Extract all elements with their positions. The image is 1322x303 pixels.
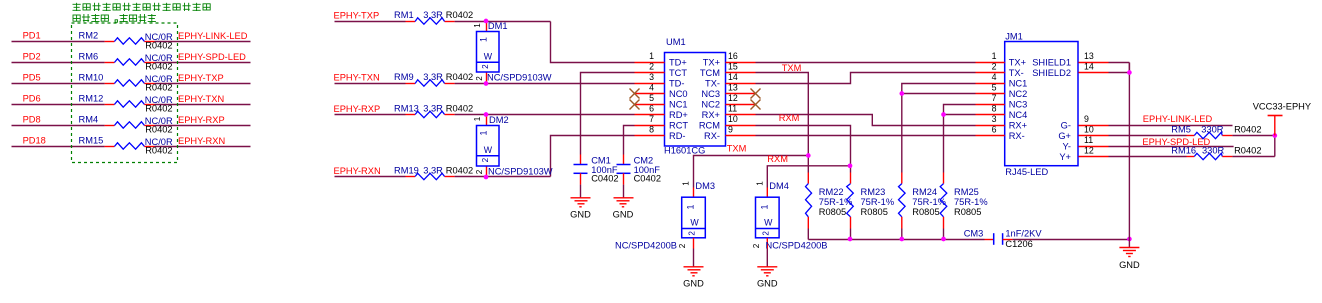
svg-text:CM3: CM3: [964, 229, 984, 239]
svg-text:JM1: JM1: [1005, 31, 1023, 41]
svg-text:UM1: UM1: [666, 37, 686, 47]
svg-text:R0402: R0402: [446, 104, 473, 114]
svg-text:2: 2: [752, 243, 761, 248]
svg-text:Y+: Y+: [1059, 152, 1071, 162]
svg-text:5: 5: [649, 93, 654, 103]
svg-text:R0402: R0402: [1234, 125, 1261, 135]
svg-text:1: 1: [686, 204, 696, 209]
svg-text:NC4: NC4: [1009, 110, 1028, 120]
svg-text:RM23: RM23: [861, 187, 886, 197]
svg-text:GND: GND: [570, 209, 591, 219]
svg-text:TD+: TD+: [669, 57, 687, 67]
svg-text:RM5: RM5: [1171, 125, 1191, 135]
svg-text:RXM: RXM: [767, 154, 788, 164]
svg-text:RM9: RM9: [394, 72, 414, 82]
svg-text:R0805: R0805: [861, 207, 888, 217]
svg-text:CM2: CM2: [634, 155, 654, 165]
svg-text:4: 4: [649, 82, 654, 92]
svg-text:8: 8: [649, 124, 654, 134]
svg-text:RM24: RM24: [912, 187, 937, 197]
svg-text:R0402: R0402: [145, 125, 172, 135]
svg-text:R0402: R0402: [446, 10, 473, 20]
svg-text:R0805: R0805: [819, 207, 846, 217]
svg-text:TD-: TD-: [669, 78, 685, 88]
svg-text:DM1: DM1: [488, 21, 508, 31]
svg-text:12: 12: [1084, 145, 1094, 155]
svg-text:RM4: RM4: [79, 114, 99, 124]
svg-text:6: 6: [992, 124, 997, 134]
svg-text:NC/SPD4200B: NC/SPD4200B: [615, 240, 677, 250]
svg-text:14: 14: [728, 72, 738, 82]
svg-text:R0402: R0402: [145, 104, 172, 114]
svg-text:EPHY-RXN: EPHY-RXN: [178, 136, 225, 146]
svg-text:DM2: DM2: [489, 115, 509, 125]
svg-text:1: 1: [682, 181, 691, 186]
svg-text:2: 2: [481, 64, 490, 69]
svg-text:11: 11: [1084, 135, 1093, 145]
svg-text:RM19: RM19: [394, 166, 419, 176]
svg-text:Y-: Y-: [1063, 141, 1071, 151]
svg-text:TX+: TX+: [1009, 57, 1026, 67]
svg-text:R0402: R0402: [1234, 146, 1261, 156]
svg-text:15: 15: [728, 61, 738, 71]
svg-text:75R-1%: 75R-1%: [954, 197, 988, 207]
svg-text:1: 1: [479, 37, 489, 42]
svg-text:3.3R: 3.3R: [423, 166, 443, 176]
svg-text:5: 5: [992, 82, 997, 92]
svg-text:EPHY-RXP: EPHY-RXP: [178, 115, 225, 125]
svg-text:RM2: RM2: [79, 30, 99, 40]
svg-text:C0402: C0402: [634, 174, 661, 184]
svg-text:NC0: NC0: [669, 89, 688, 99]
svg-text:R0402: R0402: [145, 83, 172, 93]
svg-text:10: 10: [728, 114, 738, 124]
svg-text:1: 1: [992, 51, 997, 61]
svg-text:12: 12: [728, 93, 738, 103]
svg-text:PD18: PD18: [23, 135, 46, 145]
svg-text:2: 2: [475, 169, 484, 174]
svg-text:PD8: PD8: [23, 114, 41, 124]
svg-text:6: 6: [649, 103, 654, 113]
svg-text:1: 1: [473, 116, 482, 121]
svg-text:13: 13: [728, 82, 738, 92]
svg-text:75R-1%: 75R-1%: [861, 197, 895, 207]
svg-text:1: 1: [759, 204, 769, 209]
svg-text:SHIELD2: SHIELD2: [1032, 68, 1071, 78]
svg-text:RJ45-LED: RJ45-LED: [1005, 167, 1048, 177]
svg-text:CM1: CM1: [591, 155, 611, 165]
svg-text:PD2: PD2: [23, 51, 41, 61]
svg-text:SHIELD1: SHIELD1: [1032, 57, 1071, 67]
svg-text:EPHY-LINK-LED: EPHY-LINK-LED: [1143, 114, 1213, 124]
svg-text:GND: GND: [683, 278, 704, 288]
svg-text:R0805: R0805: [954, 207, 981, 217]
svg-text:1: 1: [755, 181, 764, 186]
svg-text:NC/SPD9103W: NC/SPD9103W: [488, 166, 553, 176]
svg-text:7: 7: [992, 93, 997, 103]
svg-text:GND: GND: [757, 278, 778, 288]
svg-text:TX+: TX+: [703, 57, 720, 67]
svg-text:NC/SPD9103W: NC/SPD9103W: [487, 73, 552, 83]
svg-text:RX+: RX+: [1009, 120, 1027, 130]
svg-text:RM13: RM13: [394, 104, 419, 114]
svg-text:EPHY-TXN: EPHY-TXN: [178, 94, 224, 104]
svg-text:1: 1: [649, 51, 654, 61]
svg-text:330R: 330R: [1201, 125, 1224, 135]
svg-text:RM12: RM12: [79, 93, 104, 103]
svg-text:EPHY-RXP: EPHY-RXP: [334, 104, 381, 114]
svg-text:EPHY-SPD-LED: EPHY-SPD-LED: [178, 52, 246, 62]
svg-text:EPHY-TXN: EPHY-TXN: [334, 73, 380, 83]
svg-text:2: 2: [761, 231, 770, 236]
svg-text:PD6: PD6: [23, 93, 41, 103]
svg-text:2: 2: [481, 157, 490, 162]
svg-text:1nF/2KV: 1nF/2KV: [1005, 229, 1042, 239]
svg-text:NC3: NC3: [701, 89, 720, 99]
svg-text:3.3R: 3.3R: [423, 10, 443, 20]
svg-text:DM3: DM3: [695, 181, 715, 191]
svg-text:R0402: R0402: [145, 62, 172, 72]
svg-text:13: 13: [1084, 51, 1094, 61]
svg-text:2: 2: [475, 76, 484, 81]
svg-text:RM15: RM15: [79, 135, 104, 145]
svg-text:TX-: TX-: [705, 78, 720, 88]
svg-text:NC2: NC2: [1009, 89, 1028, 99]
svg-text:2: 2: [678, 243, 687, 248]
svg-text:NC/SPD4200B: NC/SPD4200B: [766, 240, 828, 250]
svg-text:NC2: NC2: [701, 99, 720, 109]
svg-text:R0402: R0402: [145, 41, 172, 51]
svg-text:C0402: C0402: [591, 174, 618, 184]
svg-text:3: 3: [992, 114, 997, 124]
svg-text:EPHY-TXP: EPHY-TXP: [334, 11, 380, 21]
svg-text:2: 2: [992, 61, 997, 71]
svg-text:10: 10: [1084, 124, 1094, 134]
svg-text:RCT: RCT: [669, 120, 688, 130]
svg-text:H1601CG: H1601CG: [664, 145, 705, 155]
svg-text:RX-: RX-: [1009, 131, 1025, 141]
svg-text:RD+: RD+: [669, 110, 688, 120]
svg-text:1: 1: [473, 23, 482, 28]
svg-text:14: 14: [1084, 61, 1094, 71]
svg-text:2: 2: [688, 231, 697, 236]
svg-text:RM25: RM25: [954, 187, 979, 197]
svg-text:NC3: NC3: [1009, 99, 1028, 109]
svg-text:TXM: TXM: [782, 63, 802, 73]
svg-text:RCM: RCM: [699, 120, 720, 130]
svg-text:EPHY-RXN: EPHY-RXN: [334, 166, 381, 176]
svg-text:RXM: RXM: [779, 113, 800, 123]
svg-text:DM4: DM4: [769, 181, 789, 191]
svg-text:W: W: [764, 218, 773, 228]
svg-text:RX-: RX-: [704, 131, 720, 141]
svg-text:R0402: R0402: [446, 72, 473, 82]
svg-text:NC1: NC1: [1009, 78, 1028, 88]
svg-text:TXM: TXM: [727, 144, 747, 154]
svg-text:W: W: [690, 218, 699, 228]
svg-text:3.3R: 3.3R: [423, 104, 443, 114]
svg-text:RX+: RX+: [702, 110, 720, 120]
svg-text:TCT: TCT: [669, 68, 687, 78]
svg-text:3: 3: [649, 72, 654, 82]
svg-text:GND: GND: [613, 209, 634, 219]
svg-text:EPHY-LINK-LED: EPHY-LINK-LED: [178, 31, 248, 41]
svg-text:8: 8: [992, 103, 997, 113]
svg-text:PD1: PD1: [23, 30, 41, 40]
svg-text:G-: G-: [1061, 120, 1071, 130]
svg-text:7: 7: [649, 114, 654, 124]
svg-text:R0402: R0402: [446, 166, 473, 176]
svg-text:RM6: RM6: [79, 51, 99, 61]
svg-text:16: 16: [728, 51, 738, 61]
svg-text:R0402: R0402: [145, 146, 172, 156]
svg-text:G+: G+: [1058, 131, 1071, 141]
svg-text:2: 2: [649, 61, 654, 71]
svg-text:R0805: R0805: [912, 207, 939, 217]
svg-text:9: 9: [728, 124, 733, 134]
svg-text:3.3R: 3.3R: [423, 72, 443, 82]
svg-text:RM10: RM10: [79, 72, 104, 82]
svg-text:330R: 330R: [1202, 146, 1225, 156]
svg-text:C1206: C1206: [1005, 239, 1032, 249]
svg-text:RD-: RD-: [669, 131, 686, 141]
svg-text:RM22: RM22: [819, 187, 844, 197]
svg-text:W: W: [484, 145, 493, 155]
svg-text:EPHY-TXP: EPHY-TXP: [178, 73, 224, 83]
svg-text:TX-: TX-: [1009, 68, 1024, 78]
svg-text:RM16: RM16: [1171, 146, 1196, 156]
svg-text:TCM: TCM: [700, 68, 720, 78]
svg-text:PD5: PD5: [23, 72, 41, 82]
svg-text:9: 9: [1084, 114, 1089, 124]
svg-text:4: 4: [992, 72, 997, 82]
svg-text:11: 11: [728, 103, 737, 113]
svg-text:GND: GND: [1119, 260, 1140, 270]
svg-text:VCC33-EPHY: VCC33-EPHY: [1253, 102, 1311, 112]
svg-text:W: W: [484, 52, 493, 62]
svg-text:NC1: NC1: [669, 99, 688, 109]
svg-text:1: 1: [479, 130, 489, 135]
svg-text:RM1: RM1: [394, 10, 414, 20]
